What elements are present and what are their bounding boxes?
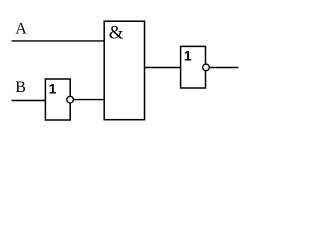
wire U2 output to AND gate bbox=[74, 99, 105, 101]
inverter U2 output bubble bbox=[67, 96, 74, 103]
svg-text:B: B bbox=[15, 79, 26, 96]
AND gate U1 box bbox=[104, 21, 144, 120]
inverter U2 box bbox=[45, 79, 70, 120]
wire B input to inverter U2 bbox=[12, 100, 46, 102]
wire output bbox=[210, 67, 239, 69]
inverter U3 output bubble bbox=[203, 64, 210, 71]
wire A input to AND gate bbox=[12, 40, 105, 42]
wire AND output to inverter U3 bbox=[145, 67, 182, 69]
svg-text:1: 1 bbox=[49, 81, 57, 97]
svg-text:&: & bbox=[109, 23, 124, 44]
svg-text:A: A bbox=[15, 21, 27, 38]
svg-text:1: 1 bbox=[184, 48, 192, 64]
inverter U3 box bbox=[181, 46, 206, 88]
